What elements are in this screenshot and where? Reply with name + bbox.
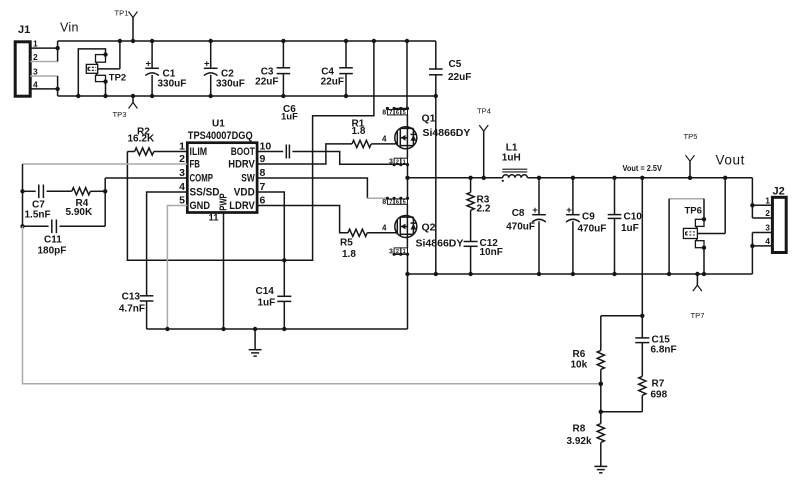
svg-text:10: 10 (260, 140, 272, 152)
svg-text:+: + (532, 205, 538, 216)
svg-text:1uF: 1uF (258, 298, 276, 309)
wire pin 11 PWP to ground (223, 213, 225, 330)
svg-text:16.2K: 16.2K (128, 134, 155, 145)
svg-text:4: 4 (179, 181, 185, 193)
svg-text:698: 698 (651, 390, 668, 401)
test point TP2 (probe jack) (76, 39, 126, 98)
wire GND pin 5 (165, 206, 187, 332)
Q1 drain pins 8-7-6-5 (382, 107, 409, 128)
svg-text:C9: C9 (582, 212, 595, 223)
svg-text:9: 9 (260, 153, 266, 165)
svg-text:470uF: 470uF (578, 224, 607, 235)
svg-text:5: 5 (403, 110, 406, 116)
svg-text:11: 11 (208, 213, 219, 224)
svg-text:1uF: 1uF (621, 223, 639, 234)
label Vout = 2.5V (623, 164, 663, 174)
svg-text:R8: R8 (573, 424, 586, 435)
svg-text:330uF: 330uF (158, 79, 187, 90)
svg-text:Q1: Q1 (422, 113, 436, 125)
capacitor C8 470uF (506, 176, 546, 277)
svg-text:J1: J1 (18, 24, 30, 36)
svg-text:3: 3 (765, 223, 770, 233)
svg-text:TP3: TP3 (113, 110, 127, 119)
svg-text:TP4: TP4 (477, 107, 491, 116)
wire J1 pin 3 (30, 67, 57, 77)
test point TP7 (691, 272, 705, 320)
ground symbol (divider) (594, 466, 607, 472)
connector J1 (15, 24, 30, 96)
test point TP5 (684, 132, 698, 180)
svg-text:TP7: TP7 (691, 311, 705, 320)
svg-text:2: 2 (396, 159, 399, 165)
svg-text:1.8: 1.8 (342, 249, 356, 260)
svg-text:C8: C8 (512, 208, 525, 219)
wire Vout to J2 pins 1-2 (750, 178, 754, 218)
capacitor C5 22uF (429, 41, 471, 276)
test point TP1 (115, 8, 138, 43)
wire ground rail to output ground (407, 274, 409, 329)
svg-text:4: 4 (382, 135, 387, 144)
svg-text:1.8: 1.8 (352, 126, 366, 137)
svg-text:4: 4 (765, 236, 770, 246)
svg-text:5: 5 (179, 194, 185, 206)
capacitor C9 470uF (566, 176, 606, 277)
svg-text:+: + (204, 59, 210, 70)
label Vin (60, 21, 79, 35)
wire Q1 drain feed (405, 39, 409, 109)
wire C6 to SW node (292, 152, 407, 165)
svg-text:Vin: Vin (60, 21, 79, 35)
capacitor C6 1uF (281, 104, 298, 159)
svg-text:22uF: 22uF (448, 72, 471, 83)
capacitor C2 330uF (204, 39, 245, 98)
svg-text:7: 7 (260, 181, 266, 193)
transistor Q1 Si4866DY (395, 113, 471, 149)
svg-text:C5: C5 (449, 59, 462, 70)
svg-text:8: 8 (382, 110, 386, 117)
svg-text:3: 3 (33, 67, 38, 77)
svg-text:BOOT: BOOT (231, 146, 255, 158)
capacitor C7 1.5nF (23, 185, 72, 221)
resistor R7 698 (601, 376, 668, 412)
svg-text:HDRV: HDRV (228, 159, 255, 171)
capacitor C13 4.7nF (119, 292, 154, 330)
test point TP6 (probe jack) (667, 176, 728, 277)
svg-text:10k: 10k (571, 360, 588, 371)
wire FB pin 2 (23, 163, 188, 165)
capacitor C10 1uF (608, 176, 643, 277)
svg-text:C14: C14 (256, 286, 275, 297)
capacitor C1 330uF (145, 39, 186, 98)
test point TP3 (113, 94, 138, 119)
wire COMP to comp network (103, 178, 107, 226)
Q1 source pins 3-2-1 (389, 146, 409, 167)
wire Vin+ top rail (58, 40, 436, 42)
resistor R5 1.8 (340, 224, 397, 261)
svg-text:SW: SW (241, 173, 255, 185)
transistor Q2 Si4866DY (395, 216, 464, 250)
wire Vout line (527, 177, 752, 179)
wire SW pin 8 (257, 178, 387, 198)
wire J2 pin 2 (752, 208, 772, 218)
svg-text:Si4866DY: Si4866DY (423, 127, 471, 139)
svg-text:6: 6 (260, 194, 266, 206)
svg-text:3: 3 (179, 167, 185, 179)
resistor R2 16.2K (127, 127, 187, 156)
capacitor C14 1uF (256, 286, 292, 331)
svg-text:22uF: 22uF (321, 77, 344, 88)
wire ground to J2 pins 3-4 (750, 233, 754, 275)
node FB left vertical (20, 164, 24, 229)
wire J1 pin 2 (30, 52, 57, 62)
wire HDRV pin 9 (257, 144, 352, 164)
svg-text:6.8nF: 6.8nF (651, 345, 677, 356)
capacitor C15 6.8nF (635, 316, 676, 377)
svg-text:3.92k: 3.92k (567, 436, 592, 447)
svg-text:R6: R6 (573, 349, 586, 360)
svg-text:C10: C10 (624, 212, 643, 223)
test point TP4 (477, 107, 491, 178)
svg-text:+: + (566, 205, 572, 216)
resistor R8 3.92k (567, 412, 605, 466)
svg-text:TP1: TP1 (115, 8, 129, 17)
op-amp U1 TPS40007DGQ controller (179, 119, 271, 224)
svg-text:3: 3 (389, 159, 393, 166)
svg-text:5: 5 (403, 200, 406, 206)
svg-text:6: 6 (396, 110, 399, 116)
svg-text:ILIM: ILIM (190, 146, 208, 158)
svg-text:470uF: 470uF (506, 222, 535, 233)
svg-text:R7: R7 (652, 379, 665, 390)
svg-text:3: 3 (389, 248, 393, 255)
wire Q2 source to ground (405, 254, 409, 276)
svg-text:2.2: 2.2 (477, 204, 491, 215)
wire Vin- ground rail (58, 95, 436, 97)
svg-text:SS/SD: SS/SD (190, 186, 220, 199)
wire J2 pin 1 (752, 195, 772, 205)
svg-text:+: + (146, 59, 152, 70)
wire IC ground rail (147, 327, 408, 331)
svg-text:10nF: 10nF (480, 247, 503, 258)
capacitor C11 180pF (23, 220, 106, 257)
svg-text:1.5nF: 1.5nF (25, 210, 51, 221)
svg-text:22uF: 22uF (255, 77, 278, 88)
wire FB feedback (grey) (23, 226, 604, 386)
label Vout (716, 153, 745, 168)
wire J2 pin 4 (752, 236, 772, 246)
svg-text:4: 4 (33, 79, 38, 89)
Q2 drain pins 8-7-6-5 (382, 197, 409, 217)
svg-text:1uH: 1uH (502, 152, 521, 163)
inductor L1 1uH (502, 142, 528, 182)
wire J1 pins 1-2 tie (55, 41, 59, 62)
capacitor C3 22uF (255, 39, 290, 98)
wire J2 pin 3 (752, 223, 772, 233)
svg-text:GND: GND (190, 200, 210, 212)
svg-text:TP2: TP2 (109, 73, 126, 84)
svg-text:C13: C13 (122, 292, 141, 303)
svg-text:C11: C11 (44, 235, 62, 246)
svg-text:6: 6 (396, 200, 399, 206)
svg-text:U1: U1 (212, 119, 225, 130)
wire SW node (408, 176, 503, 180)
svg-text:1: 1 (33, 39, 38, 49)
svg-text:7: 7 (389, 200, 392, 206)
svg-text:Vout: Vout (716, 153, 745, 168)
svg-text:TPS40007DGQ: TPS40007DGQ (188, 130, 253, 142)
svg-text:5.90K: 5.90K (66, 207, 93, 218)
Q2 source pins 3-2-1 (389, 234, 409, 255)
svg-text:Q2: Q2 (422, 222, 436, 234)
wire BOOT pin 10 (257, 151, 283, 153)
svg-text:R5: R5 (340, 238, 353, 249)
wire SS/SD pin 4 (147, 192, 188, 296)
wire output ground rail (408, 273, 753, 275)
svg-text:Vout = 2.5V: Vout = 2.5V (623, 164, 663, 174)
svg-text:330uF: 330uF (216, 79, 245, 90)
ground symbol (IC) (249, 329, 262, 356)
connector J2 (772, 186, 786, 253)
svg-text:1uF: 1uF (281, 112, 298, 123)
svg-text:LDRV: LDRV (229, 201, 255, 213)
svg-text:4.7nF: 4.7nF (119, 304, 145, 315)
svg-text:Si4866DY: Si4866DY (416, 238, 464, 250)
node SW riser (405, 164, 409, 198)
svg-text:TP6: TP6 (685, 206, 702, 217)
wire J1 pins 3-4 tie (55, 76, 59, 96)
svg-text:4: 4 (382, 224, 387, 233)
wire Vout to divider (640, 176, 644, 318)
svg-text:TP5: TP5 (684, 132, 698, 141)
svg-text:FB: FB (190, 158, 201, 171)
wire Vin to VDD feed (284, 39, 376, 260)
svg-text:COMP: COMP (190, 172, 214, 185)
svg-text:2: 2 (765, 208, 770, 218)
capacitor C4 22uF (321, 39, 353, 98)
resistor R6 10k (571, 349, 605, 414)
svg-text:2: 2 (33, 52, 38, 62)
svg-text:1: 1 (403, 159, 406, 165)
svg-text:1: 1 (765, 195, 770, 205)
resistor R3 2.2 (467, 178, 491, 242)
svg-text:J2: J2 (773, 186, 785, 198)
wire J1 pin 1 (30, 39, 57, 49)
svg-text:7: 7 (389, 110, 392, 116)
svg-text:2: 2 (179, 153, 185, 165)
wire VDD pin 7 (257, 192, 284, 296)
wire J1 pin 4 (30, 79, 57, 89)
wire LDRV pin 6 (257, 206, 348, 233)
svg-text:8: 8 (382, 199, 386, 206)
capacitor C12 10nF (464, 238, 503, 276)
svg-text:1: 1 (179, 140, 185, 152)
wire divider top (601, 316, 643, 351)
wire R2 to VDD node (127, 152, 312, 263)
svg-text:VDD: VDD (234, 187, 255, 199)
resistor R1 1.8 (352, 119, 397, 148)
svg-text:PWP: PWP (218, 193, 229, 211)
svg-text:8: 8 (260, 167, 266, 179)
resistor R4 5.90K (66, 188, 106, 218)
wire COMP pin 3 (105, 177, 187, 179)
svg-text:180pF: 180pF (38, 246, 67, 257)
